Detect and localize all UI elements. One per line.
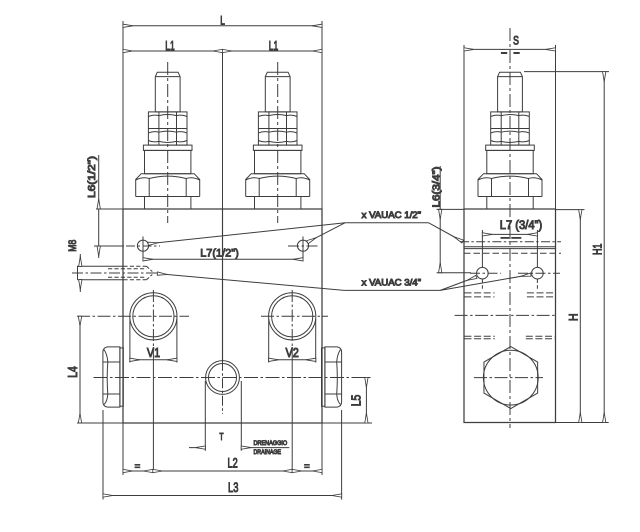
dimension L3 xyxy=(103,495,342,497)
top extension line left xyxy=(122,21,124,209)
dimension S xyxy=(464,48,556,50)
port V1 xyxy=(130,293,177,340)
svg-text:L3: L3 xyxy=(228,480,238,495)
dimension L xyxy=(123,25,322,27)
bottom extension right edge xyxy=(321,423,323,475)
dimension L1 right xyxy=(223,50,323,52)
svg-text:=: = xyxy=(135,461,141,472)
dimension T left arrow xyxy=(189,447,205,449)
hidden cavity dashes lower xyxy=(465,335,495,337)
chain dimension = right xyxy=(292,470,322,472)
svg-text:L6(3/4"): L6(3/4") xyxy=(432,167,443,208)
cartridge 2 centerline xyxy=(277,62,279,223)
chain dimension = left xyxy=(123,470,153,472)
dimension H extensions xyxy=(556,209,585,211)
svg-text:DRENAGGIO: DRENAGGIO xyxy=(254,440,288,447)
dimension L6(1/2") lower arrow xyxy=(98,246,100,258)
bottom extension left edge xyxy=(122,423,124,475)
side plug right hex xyxy=(325,347,342,407)
dimension L6(1/2") upper arrow xyxy=(98,155,100,209)
dimension H xyxy=(579,210,581,423)
dimension L7(3/4") xyxy=(481,230,483,267)
port T xyxy=(206,361,240,395)
dimension L5 xyxy=(365,378,367,424)
svg-text:V1: V1 xyxy=(147,345,160,360)
dimension L6(3/4") xyxy=(439,166,441,209)
svg-text:L: L xyxy=(220,16,225,28)
T level centerline xyxy=(94,377,373,379)
side plug right flange xyxy=(322,348,325,406)
svg-text:H1: H1 xyxy=(591,243,605,255)
L6(3/4") bottom extension xyxy=(437,272,471,274)
hex plug crosshair xyxy=(474,377,543,379)
vent hole centerline right xyxy=(288,245,319,247)
side view V level centerline xyxy=(455,314,556,316)
side plug left hex xyxy=(103,347,120,407)
relief valve cartridge 2 xyxy=(246,72,310,209)
svg-text:x VAUAC 1/2": x VAUAC 1/2" xyxy=(362,210,422,220)
front view block body xyxy=(123,209,322,423)
vent hole 1/2 right xyxy=(297,240,308,251)
dimension T right arrow and drainage leader xyxy=(241,447,289,449)
vent hole 1/2 left xyxy=(137,240,148,251)
cartridge 1 centerline xyxy=(167,62,169,223)
front view center divider wire xyxy=(222,51,224,209)
svg-text:S: S xyxy=(513,36,519,48)
svg-text:=: = xyxy=(304,461,310,472)
dimension H1 extension top xyxy=(524,71,609,73)
svg-text:L4: L4 xyxy=(66,366,80,378)
dimension M8 top arrow xyxy=(79,254,81,266)
side vent hole right xyxy=(532,267,544,279)
M8 plug body xyxy=(78,266,124,279)
L3 extension right xyxy=(341,410,343,500)
dimension L4 xyxy=(79,316,81,423)
dimension V2 xyxy=(268,319,270,363)
top extension line right xyxy=(321,21,323,209)
svg-text:L1: L1 xyxy=(269,38,279,53)
L3 extension left xyxy=(102,410,104,500)
V1 V2 horizontal centerline xyxy=(77,315,189,317)
svg-text:L1: L1 xyxy=(165,38,175,53)
svg-text:L6(1/2"): L6(1/2") xyxy=(87,156,98,198)
vent hole centerline left xyxy=(94,245,124,247)
svg-text:L5: L5 xyxy=(350,395,364,407)
bottom edge extension xyxy=(77,422,123,424)
cross passage hidden lines xyxy=(460,241,561,243)
dimension L7(1/2") xyxy=(143,258,303,260)
side vent hole left xyxy=(477,267,489,279)
chain dimension L2 xyxy=(153,470,292,472)
svg-text:H: H xyxy=(567,313,581,321)
svg-text:T: T xyxy=(219,432,223,443)
side plug left flange xyxy=(120,348,123,406)
svg-text:L2: L2 xyxy=(228,455,238,470)
svg-text:DRAINAGE: DRAINAGE xyxy=(254,449,282,456)
dimension V1 xyxy=(129,319,131,363)
side view cartridge xyxy=(478,72,542,209)
top surface extension left xyxy=(96,208,123,210)
dimension M8 bottom arrow xyxy=(79,280,81,292)
dimension L1 left xyxy=(123,50,223,52)
relief valve cartridge 1 xyxy=(136,72,200,209)
dimension H1 xyxy=(603,72,605,423)
side view centerline xyxy=(509,28,511,428)
M8 plug centerline xyxy=(72,272,158,274)
dimension T extensions xyxy=(204,381,206,451)
dimension S extensions xyxy=(463,45,465,209)
center mark dashes top xyxy=(501,52,507,54)
svg-text:V2: V2 xyxy=(286,345,299,360)
L6(3/4") top extension xyxy=(437,208,464,210)
svg-text:x VAUAC 3/4": x VAUAC 3/4" xyxy=(362,278,422,288)
port V2 xyxy=(269,293,316,340)
hidden cavity dashes upper xyxy=(465,292,495,294)
svg-text:M8: M8 xyxy=(67,240,79,252)
center mark dashes mid xyxy=(501,237,510,239)
bottom hex plug end view xyxy=(484,347,538,409)
svg-text:L7(1/2"): L7(1/2") xyxy=(200,247,239,259)
svg-text:L7 (3/4"): L7 (3/4") xyxy=(500,220,543,232)
side view block body xyxy=(464,209,556,423)
port V1 centerline vertical xyxy=(152,290,154,347)
port V2 centerline vertical xyxy=(291,290,293,347)
